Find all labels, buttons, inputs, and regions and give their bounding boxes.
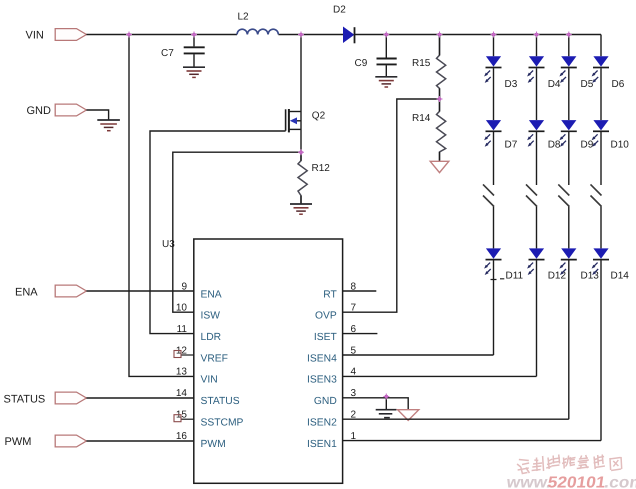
svg-text:R14: R14 <box>412 113 431 124</box>
junction node R15/R14/OVP <box>438 97 442 101</box>
LED D11 <box>484 248 501 275</box>
wire ENA to pin 9 <box>86 290 193 292</box>
ground C7 <box>183 67 205 77</box>
svg-text:U3: U3 <box>162 239 175 250</box>
inductor L2 <box>237 29 278 34</box>
svg-text:C9: C9 <box>355 58 368 69</box>
ground R12 <box>290 204 312 214</box>
junction node GND earth <box>385 395 389 399</box>
wire LED column 2 <box>536 35 538 377</box>
IC U3 <box>194 239 343 483</box>
connector PWM <box>55 435 86 447</box>
ground arrow below R14 <box>430 161 449 172</box>
svg-text:.com: .com <box>603 475 636 489</box>
svg-text:D14: D14 <box>611 271 630 282</box>
junction node Q2 source / R12 <box>299 150 303 154</box>
svg-text:GND: GND <box>27 105 52 117</box>
ground arrow at pin 3 <box>398 410 419 421</box>
svg-text:D2: D2 <box>333 5 346 16</box>
wire LED column 3 <box>568 35 570 420</box>
svg-text:520101: 520101 <box>546 475 606 489</box>
ground GND connector <box>97 120 120 131</box>
watermark chinese text <box>516 455 622 474</box>
svg-text:PWM: PWM <box>201 439 226 450</box>
svg-text:D8: D8 <box>548 140 561 151</box>
LED D12 <box>527 248 544 275</box>
LED D7 <box>484 120 501 147</box>
svg-text:D6: D6 <box>612 79 625 90</box>
LED D3 <box>484 56 501 83</box>
svg-text:STATUS: STATUS <box>4 394 46 406</box>
resistor R15 <box>437 35 446 100</box>
junction node C7 <box>192 33 196 37</box>
svg-text:14: 14 <box>176 388 188 399</box>
junction node Q2 drain <box>299 33 303 37</box>
svg-text:ISW: ISW <box>201 311 221 322</box>
break marks column 1 <box>483 184 494 206</box>
svg-text:Q2: Q2 <box>312 111 326 122</box>
break marks column 3 <box>558 184 569 206</box>
break marks column 2 <box>526 184 537 206</box>
wire main top rail <box>86 34 601 36</box>
svg-text:13: 13 <box>176 367 188 378</box>
svg-text:D11: D11 <box>506 271 524 282</box>
svg-text:VREF: VREF <box>201 353 228 364</box>
svg-text:LDR: LDR <box>201 332 222 343</box>
svg-text:ISEN3: ISEN3 <box>307 375 337 386</box>
diode D2 <box>344 28 354 43</box>
svg-text:D4: D4 <box>548 79 561 90</box>
svg-text:VIN: VIN <box>26 30 44 42</box>
LED D8 <box>527 120 544 147</box>
break marks column 4 <box>591 184 602 206</box>
wire LED column 1 <box>493 35 495 356</box>
transistor Q2 <box>286 109 301 132</box>
wire STATUS to pin 14 <box>86 397 193 399</box>
svg-text:STATUS: STATUS <box>201 396 240 407</box>
svg-text:R15: R15 <box>412 58 431 69</box>
wire source net: R12 node to pin 10 ISW <box>173 152 301 312</box>
connector ENA <box>55 285 86 297</box>
capacitor C9 <box>385 35 387 77</box>
ground C9 <box>375 77 397 87</box>
resistor R12 <box>298 152 307 204</box>
watermark url <box>504 475 636 489</box>
connector STATUS <box>55 392 86 404</box>
junction node LED col2 top <box>535 33 539 37</box>
tick on column 1 wire <box>491 278 505 281</box>
junction node LED col1 top <box>492 33 496 37</box>
wire OVP net to R15/R14 node <box>343 99 440 312</box>
wire gate net: Q2 gate to pin 11 LDR <box>150 131 286 334</box>
junction node C9 <box>385 33 389 37</box>
wire ISEN4 net to LED column 1 <box>343 354 494 356</box>
wire GND connector to ground <box>86 110 108 120</box>
LED D14 <box>592 248 609 275</box>
connector GND <box>55 104 86 116</box>
svg-text:ENA: ENA <box>15 287 38 299</box>
wire ISEN1 net to LED column 4 <box>343 440 601 442</box>
svg-text:10: 10 <box>176 303 188 314</box>
svg-text:ISET: ISET <box>314 332 338 343</box>
svg-text:D5: D5 <box>581 79 594 90</box>
svg-text:ISEN4: ISEN4 <box>307 353 337 364</box>
LED D4 <box>527 56 544 83</box>
junction node R15 top <box>438 33 442 37</box>
svg-text:ISEN2: ISEN2 <box>307 418 337 429</box>
ground earth at pin 3 <box>376 410 397 418</box>
svg-text:D13: D13 <box>581 271 600 282</box>
wire ISEN3 net to LED column 2 <box>343 375 537 377</box>
svg-text:RT: RT <box>323 289 337 300</box>
svg-text:L2: L2 <box>238 12 250 23</box>
junction node LED col3 top <box>567 33 571 37</box>
LED D9 <box>559 120 576 147</box>
svg-text:ISEN1: ISEN1 <box>307 439 337 450</box>
svg-text:D10: D10 <box>611 140 630 151</box>
connector VIN <box>55 29 86 41</box>
wire PWM to pin 16 <box>86 440 193 442</box>
LED D10 <box>592 120 609 147</box>
wire ISEN2 net to LED column 3 <box>343 418 569 420</box>
svg-text:VIN: VIN <box>201 375 218 386</box>
LED D13 <box>559 248 576 275</box>
wire Q2 drain from rail <box>300 35 302 153</box>
svg-text:OVP: OVP <box>315 311 337 322</box>
svg-text:16: 16 <box>176 431 188 442</box>
svg-text:D3: D3 <box>505 79 518 90</box>
svg-text:www.: www. <box>504 475 552 489</box>
svg-text:R12: R12 <box>312 163 331 174</box>
wire VIN net vertical to pin 13 <box>129 35 194 377</box>
resistor R14 <box>437 99 446 161</box>
svg-text:11: 11 <box>177 324 188 335</box>
wire LED column 4 <box>600 35 602 441</box>
svg-text:D7: D7 <box>505 140 518 151</box>
junction node VIN rail <box>127 33 131 37</box>
svg-text:D9: D9 <box>581 140 594 151</box>
svg-text:9: 9 <box>181 281 187 292</box>
svg-text:SSTCMP: SSTCMP <box>201 418 244 429</box>
svg-text:ENA: ENA <box>201 289 222 300</box>
svg-text:GND: GND <box>314 396 337 407</box>
LED D5 <box>559 56 576 83</box>
capacitor C7 <box>193 35 195 68</box>
svg-text:C7: C7 <box>161 48 174 59</box>
wire GND net <box>343 398 409 410</box>
svg-text:PWM: PWM <box>5 436 32 448</box>
LED D6 <box>592 56 609 83</box>
